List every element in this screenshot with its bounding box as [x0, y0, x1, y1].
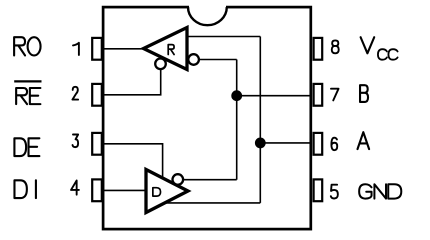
pin label A — [358, 132, 370, 149]
pin label RO — [14, 37, 25, 55]
pin 7 stub — [314, 84, 323, 106]
wire pin1 RO to receiver output — [104, 48, 146, 50]
pin 3 stub — [92, 133, 102, 155]
pin 5 stub — [314, 179, 323, 201]
label R — [168, 45, 174, 55]
pin number 7 — [331, 89, 339, 101]
pin 2 stub — [92, 84, 102, 106]
wire receiver noninverting input to net A — [187, 36, 260, 38]
wire pin3 DE to driver enable — [104, 144, 163, 179]
pin number 6 — [331, 138, 337, 150]
pin 4 stub — [92, 179, 102, 201]
pin number 3 — [73, 135, 79, 148]
bubble receiver inverting input — [188, 54, 199, 65]
pin number 1 — [73, 43, 79, 55]
wire driver output to net A — [163, 202, 260, 204]
wire driver inverting output to net B — [180, 179, 237, 181]
wire receiver inverting input to net B — [196, 59, 237, 61]
bubble driver inverting output — [173, 174, 184, 185]
label D — [153, 188, 161, 196]
pin 6 stub — [314, 133, 323, 155]
pin label DI — [14, 180, 26, 198]
wire pin2 RE to receiver enable bubble — [104, 64, 161, 95]
pin label GND — [359, 184, 371, 198]
op-amp D driver triangle — [146, 170, 188, 213]
pin number 2 — [72, 87, 78, 100]
junction node A — [255, 138, 266, 149]
wire net A vertical — [259, 37, 261, 203]
pin 1 stub — [92, 38, 102, 60]
pin label RE — [16, 88, 27, 104]
pin label CC subscript — [378, 49, 387, 60]
wire pin4 DI to driver input — [104, 189, 147, 191]
wire net B vertical — [236, 60, 238, 180]
pin label V — [361, 37, 375, 53]
notch (pin-1 index) — [189, 5, 226, 10]
pin 8 stub — [314, 38, 323, 60]
pin label B — [360, 85, 368, 102]
pin number 5 — [331, 185, 338, 199]
junction node B — [231, 90, 242, 101]
wire node B to pin7 — [237, 95, 312, 97]
wire node A to pin6 — [260, 142, 312, 144]
pin number 8 — [332, 40, 339, 53]
pin number 4 — [71, 181, 79, 195]
IC body U1 — [103, 7, 311, 229]
pin label DE — [14, 138, 26, 156]
bubble receiver enable — [155, 59, 166, 70]
op-amp R receiver triangle — [144, 28, 188, 70]
pin label RE overline — [14, 80, 41, 82]
